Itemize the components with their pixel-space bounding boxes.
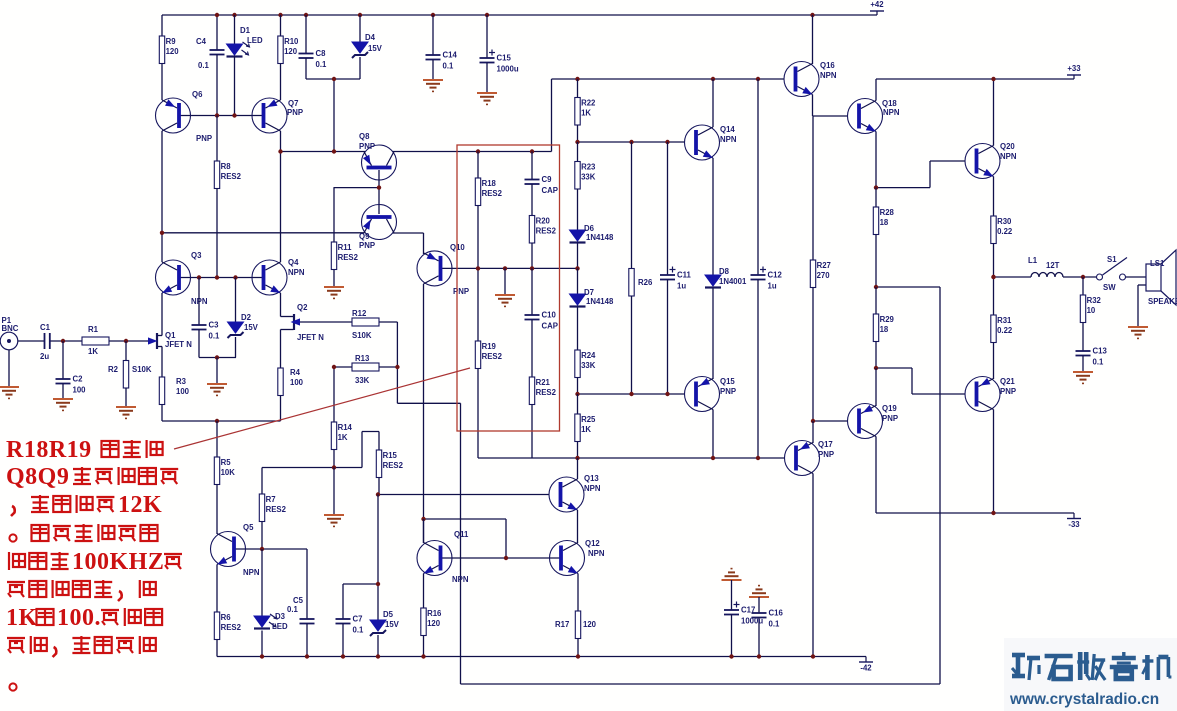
svg-text:LED: LED [272, 622, 288, 631]
svg-text:R4: R4 [290, 368, 301, 377]
red note line5 cjk [29, 553, 46, 569]
capacitor C14 [426, 54, 441, 56]
svg-text:PNP: PNP [720, 387, 736, 396]
svg-text:Q5: Q5 [243, 523, 254, 532]
transistor Q6 [156, 98, 191, 133]
wire input left [18, 340, 44, 342]
svg-text:Q18: Q18 [882, 99, 897, 108]
svg-text:NPN: NPN [452, 575, 469, 584]
svg-text:R2: R2 [108, 365, 119, 374]
wire R15-D5 [377, 495, 379, 621]
svg-text:1N4001: 1N4001 [719, 277, 747, 286]
svg-text:PNP: PNP [359, 241, 375, 250]
wire R10-Q7 [280, 64, 282, 101]
node D1 bus [232, 13, 236, 17]
ground C16 inverted [749, 596, 769, 598]
wire R3 bottom [161, 405, 163, 422]
node Q20 +33 [991, 77, 995, 81]
wire C3 bottom [198, 330, 200, 358]
red note line4 stop [9, 534, 16, 541]
svg-text:1000u: 1000u [497, 65, 519, 74]
resistor R25 [575, 414, 580, 442]
transistor Q16 [784, 62, 819, 97]
wire Q19 collector [875, 437, 877, 514]
svg-text:R27: R27 [817, 261, 831, 270]
wire R25 top [577, 394, 579, 414]
svg-text:120: 120 [166, 47, 180, 56]
ground R11 [324, 286, 344, 288]
node C12 top [756, 77, 760, 81]
svg-text:R26: R26 [638, 278, 653, 287]
svg-text:RES2: RES2 [482, 352, 503, 361]
node R10 bus [278, 13, 282, 17]
wire R5 top [216, 421, 218, 457]
transistor Q5 [211, 532, 246, 567]
svg-text:Q9: Q9 [359, 232, 370, 241]
diode D6 [570, 230, 586, 241]
resistor R10 [278, 36, 283, 64]
wire C3-D2 bottom [199, 357, 236, 359]
svg-text:R20: R20 [536, 217, 551, 226]
watermark glyph 矿 [1012, 653, 1025, 658]
wire R15 top [378, 432, 380, 451]
wire C12 top [757, 79, 759, 275]
resistor R27 [810, 260, 815, 288]
capacitor C15 [480, 57, 495, 59]
svg-text:PNP: PNP [359, 142, 375, 151]
resistor R13 [352, 363, 379, 371]
wire R16 bottom [423, 636, 425, 657]
svg-text:R1: R1 [88, 325, 99, 334]
red note line4 cjk [97, 524, 99, 542]
svg-text:0.1: 0.1 [198, 61, 210, 70]
wire y233 rail [162, 232, 365, 234]
svg-text:C7: C7 [353, 615, 363, 624]
node R5 tail [215, 419, 219, 423]
svg-text:www.crystalradio.cn: www.crystalradio.cn [1009, 691, 1159, 708]
red note line6 cjk [51, 580, 53, 598]
resistor R22 [575, 98, 580, 126]
resistor R4 [278, 368, 283, 396]
svg-text:0.1: 0.1 [316, 60, 328, 69]
node C8 bus [304, 13, 308, 17]
wire top +42 bus [162, 14, 877, 16]
svg-text:1K: 1K [338, 433, 348, 442]
wire R7 top [261, 468, 263, 495]
svg-text:PNP: PNP [453, 287, 469, 296]
resistor R2 [123, 361, 128, 389]
svg-text:C10: C10 [542, 311, 557, 320]
ground C13 [1073, 371, 1093, 373]
ground C3D2 [207, 383, 227, 385]
svg-text:RES2: RES2 [338, 253, 359, 262]
wire D4 top [359, 15, 361, 42]
transistor Q11 [417, 541, 452, 576]
svg-text:NPN: NPN [720, 135, 737, 144]
wire Q20 emitter [993, 177, 995, 217]
wire R22 bottom [577, 125, 579, 142]
svg-text:R23: R23 [581, 163, 596, 172]
red note line3 cjk [53, 496, 70, 512]
wire C7 top jog [343, 583, 378, 585]
red note line5 cjk [8, 552, 10, 570]
watermark background [1004, 638, 1177, 711]
node C5 bus [305, 654, 309, 658]
wire R10 top [280, 15, 282, 36]
svg-text:C8: C8 [316, 49, 327, 58]
node D3 bus [260, 654, 264, 658]
svg-text:R10: R10 [284, 37, 299, 46]
svg-text:R16: R16 [427, 609, 442, 618]
node R15 Q13base [376, 492, 380, 496]
red note line1 cjk [102, 441, 119, 457]
wire Q14 emitter [712, 158, 714, 275]
wire Q14 base rail [578, 141, 685, 143]
transistor Q21 [965, 377, 1000, 412]
wire D4 bottom [359, 57, 361, 79]
capacitor C5 [300, 618, 315, 620]
capacitor C7 [336, 618, 351, 620]
svg-text:+33: +33 [1067, 64, 1081, 73]
wire R19 bottom [477, 369, 479, 459]
svg-text:0.1: 0.1 [769, 620, 781, 629]
capacitor C3 [192, 324, 207, 326]
wire y458 rail [478, 457, 785, 459]
wire C8 bottom [305, 58, 307, 79]
svg-text:Q8Q9: Q8Q9 [6, 464, 69, 490]
svg-text:1000u: 1000u [741, 617, 763, 626]
node R1-R2 [124, 339, 128, 343]
wire R29 bottom [875, 342, 877, 369]
resistor R20 [529, 216, 534, 244]
node Q7-Q8 [278, 149, 282, 153]
red note line6 cjk [7, 581, 25, 583]
watermark glyph 机 [1145, 655, 1150, 680]
wire R28 bottom [875, 235, 877, 288]
resistor R32 [1080, 295, 1085, 323]
svg-text:R30: R30 [997, 217, 1012, 226]
node D1 base [232, 113, 236, 117]
wire Q2 gate rail [334, 321, 352, 323]
wire Q3-Q4 base [179, 277, 264, 279]
svg-text:Q21: Q21 [1000, 377, 1015, 386]
wire D3 top [261, 549, 263, 616]
wire R11 top [333, 188, 335, 242]
wire C2 bottom [62, 384, 64, 400]
wire R6 bottom [216, 640, 218, 657]
svg-text:CAP: CAP [542, 186, 558, 195]
resistor R21 [529, 377, 534, 405]
node C8D4 link [332, 77, 336, 81]
wire Q18 emitter [875, 132, 877, 188]
ground R2 [116, 406, 136, 408]
wire Q6-Q7 base [179, 115, 264, 117]
wire D7-R24 [577, 308, 579, 351]
node C9 top [530, 149, 534, 153]
svg-text:R14: R14 [338, 423, 353, 432]
wire Q7 collector [280, 131, 282, 262]
wire D7 top [577, 268, 579, 294]
node Q14 collector bus [711, 77, 715, 81]
wire Q13 base rail [378, 494, 549, 496]
node R16 bus [421, 654, 425, 658]
wire Q20 base [930, 160, 965, 162]
svg-text:Q19: Q19 [882, 404, 897, 413]
wire R18-R19 [477, 206, 479, 342]
svg-text:NPN: NPN [1000, 152, 1017, 161]
wire Q10 base rail [441, 267, 578, 269]
node R26 top [629, 140, 633, 144]
svg-text:Q15: Q15 [720, 377, 735, 386]
red note line3 cjk [75, 495, 77, 513]
wire y421 tail rail [162, 420, 281, 422]
wire Q3 emitter [161, 293, 163, 336]
svg-text:C5: C5 [293, 596, 304, 605]
wire BNC gnd stem [8, 350, 10, 387]
wire Q4-Q2 drain jog [281, 316, 294, 318]
wire Q4 emitter [280, 293, 282, 317]
capacitor C17 [724, 609, 739, 611]
svg-text:-42: -42 [860, 664, 872, 673]
resistor R1 [82, 337, 109, 345]
wire R9-Q6 [161, 64, 163, 101]
watermark glyph 音 [1122, 652, 1125, 658]
red note line4 cjk [75, 525, 93, 527]
red note line8 cjk2 [95, 637, 112, 653]
svg-text:R29: R29 [880, 315, 895, 324]
wire Q1 source [161, 347, 163, 378]
svg-text:Q1: Q1 [165, 331, 176, 340]
connector P1 BNC [0, 332, 18, 350]
svg-text:C3: C3 [209, 321, 220, 330]
svg-text:NPN: NPN [243, 568, 260, 577]
node Q8Q9 R11 [377, 185, 381, 189]
resistor R14 [331, 422, 336, 450]
svg-text:RES2: RES2 [482, 189, 503, 198]
wire Q21 base jog [876, 367, 912, 369]
wire R9 top [161, 15, 163, 36]
svg-text:+42: +42 [870, 0, 884, 9]
node Q21 -33 [991, 511, 995, 515]
svg-text:S1: S1 [1107, 255, 1117, 264]
red note line8 comma [53, 647, 57, 657]
svg-text:RES2: RES2 [383, 461, 404, 470]
wire R28 top [875, 188, 877, 207]
svg-text:12K: 12K [118, 492, 162, 518]
wire C4 top [216, 15, 218, 50]
red pointer line [174, 368, 470, 449]
wire C5 drop [306, 549, 308, 619]
red note line7 cjk2 [101, 609, 119, 611]
wire R31 bottom [993, 343, 995, 380]
svg-text:Q7: Q7 [288, 99, 298, 108]
red note line6 cjk [73, 581, 90, 597]
node C3D2 gnd [215, 355, 219, 359]
wire R17 bottom [577, 639, 579, 657]
node R13 right jog [395, 365, 399, 369]
wire Q18-Q20 jog h [876, 187, 930, 189]
svg-text:R5: R5 [221, 458, 232, 467]
red note line4 cjk [118, 525, 136, 527]
svg-text:1K: 1K [581, 109, 591, 118]
resistor R3 [159, 377, 164, 405]
wire D2 bottom [235, 337, 237, 358]
switch S1 [1097, 274, 1103, 280]
node R8 base rail [215, 275, 219, 279]
svg-text:270: 270 [817, 271, 831, 280]
wire C16 bottom [758, 618, 760, 657]
wire Q3 collector [161, 233, 163, 262]
capacitor C4 [210, 49, 225, 51]
svg-text:NPN: NPN [883, 108, 900, 117]
resistor R23 [575, 162, 580, 190]
node R24R25 [575, 392, 579, 396]
svg-text:NPN: NPN [588, 549, 605, 558]
node R18 mid rail [476, 266, 480, 270]
transistor Q8 [362, 145, 397, 180]
wire D5 bottom [377, 635, 379, 657]
svg-text:C17: C17 [741, 606, 755, 615]
wire Q19 base [813, 420, 848, 422]
wire C7 bottom [342, 624, 344, 657]
wire C9 top [531, 152, 533, 180]
svg-text:S10K: S10K [352, 331, 372, 340]
svg-text:C9: C9 [542, 175, 553, 184]
svg-text:Q17: Q17 [818, 440, 833, 449]
ground red box [495, 294, 515, 296]
svg-text:CAP: CAP [542, 322, 558, 331]
resistor R8 [214, 161, 219, 189]
red note line8 cjk [30, 636, 32, 654]
wire D8-Q15 [712, 289, 714, 380]
wire R27 top [812, 116, 814, 260]
wire Q16 base rail [552, 78, 785, 80]
svg-text:D3: D3 [275, 612, 286, 621]
svg-text:1K: 1K [581, 425, 591, 434]
node L1 tap [991, 275, 995, 279]
svg-text:R12: R12 [352, 309, 367, 318]
resistor R18 [475, 178, 480, 206]
wire R5-Q5 [216, 485, 218, 535]
svg-text:R7: R7 [266, 495, 276, 504]
resistor R7 [259, 494, 264, 522]
resistor R16 [421, 608, 426, 636]
wire C10 top [531, 268, 533, 315]
red note line7 cjk2 [145, 609, 162, 625]
svg-text:Q11: Q11 [454, 530, 469, 539]
wire C8 top [305, 15, 307, 54]
svg-text:PNP: PNP [287, 108, 303, 117]
wire Q17 emitter [812, 421, 814, 443]
svg-text:R6: R6 [221, 613, 232, 622]
wire Q21 collector [993, 410, 995, 514]
capacitor C10 [525, 314, 540, 316]
svg-text:-33: -33 [1068, 520, 1080, 529]
svg-text:JFET N: JFET N [165, 340, 192, 349]
svg-text:Q20: Q20 [1000, 142, 1015, 151]
resistor R31 [991, 315, 996, 343]
node C11 y394 [665, 392, 669, 396]
svg-text:Q4: Q4 [288, 258, 299, 267]
wire Q16 collector [812, 15, 814, 64]
transistor Q15 [685, 377, 720, 412]
transistor Q14 [685, 125, 720, 160]
capacitor C1 [44, 333, 46, 349]
node Q10-Q11 base tap [421, 517, 425, 521]
svg-text:33K: 33K [581, 173, 596, 182]
red note line4 cjk [32, 525, 49, 541]
svg-text:Q13: Q13 [584, 474, 599, 483]
svg-text:R32: R32 [1087, 296, 1102, 305]
capacitor C2 [56, 378, 71, 380]
node R32 tap [1081, 275, 1085, 279]
wire bottom -42 bus [217, 656, 866, 658]
svg-text:R8: R8 [221, 162, 232, 171]
resistor R15 [376, 450, 381, 478]
wire R13 rail [334, 366, 352, 368]
node Q19 base tap [811, 419, 815, 423]
wire C14 top [432, 15, 434, 55]
svg-text:0.1: 0.1 [209, 332, 221, 341]
resistor R28 [873, 207, 878, 235]
wire R29 top [875, 287, 877, 314]
svg-text:0.22: 0.22 [997, 326, 1013, 335]
svg-text:1K: 1K [88, 347, 98, 356]
node Q16 bus [810, 13, 814, 17]
red note line2 cjk [139, 468, 156, 484]
svg-text:Q8: Q8 [359, 132, 370, 141]
svg-text:RES2: RES2 [221, 623, 242, 632]
wire Q18-Q20 jog v [929, 161, 931, 188]
node C3 base rail [197, 275, 201, 279]
capacitor C9 [525, 179, 540, 181]
svg-text:R25: R25 [581, 415, 596, 424]
red note line9 stop [9, 683, 16, 690]
ground speaker [1128, 326, 1148, 328]
wire R4 bottom [280, 396, 282, 422]
wire Q13 collector [577, 458, 579, 479]
capacitor C16 [752, 612, 767, 614]
svg-text:10: 10 [1087, 306, 1096, 315]
wire C15 top [486, 15, 488, 58]
wire speaker gnd jog [1138, 284, 1146, 286]
svg-text:D2: D2 [241, 313, 252, 322]
wire C2 top [62, 341, 64, 379]
svg-text:R15: R15 [383, 451, 398, 460]
wire R30 bottom [993, 244, 995, 278]
wire -33 rail [876, 512, 1074, 514]
node R26 y394 [629, 392, 633, 396]
node D6D7 rail [575, 266, 579, 270]
wire C17 top [731, 580, 733, 610]
svg-text:33K: 33K [581, 361, 596, 370]
wire D6 bottom [577, 244, 579, 269]
wire Q5 emitter [216, 565, 218, 613]
wire R26 top [631, 142, 633, 269]
svg-text:Q6: Q6 [192, 90, 203, 99]
wire Q10 collector [423, 284, 425, 543]
wire R15 bottom [378, 478, 380, 495]
wire R8 top [216, 116, 218, 162]
svg-text:D5: D5 [383, 610, 394, 619]
wire C16 top [758, 597, 760, 613]
wire R7 bottom [261, 522, 263, 550]
inductor L1 [1031, 273, 1063, 278]
svg-text:C1: C1 [40, 323, 51, 332]
svg-text:100.: 100. [57, 605, 101, 631]
node R25 y458 [575, 456, 579, 460]
wire R14 bottom [333, 450, 335, 468]
